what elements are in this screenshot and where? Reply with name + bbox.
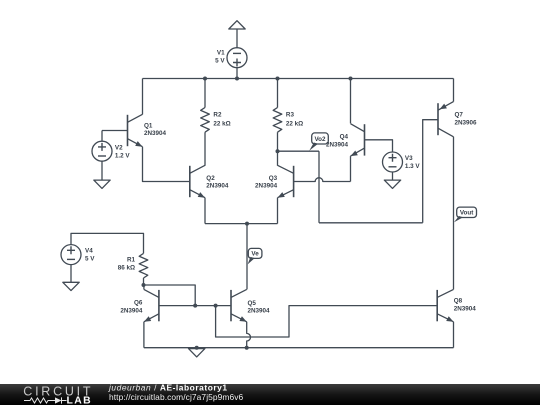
svg-text:V3: V3 <box>405 155 413 162</box>
wire: Q8 emitter leg <box>453 322 455 348</box>
svg-text:2N3904: 2N3904 <box>144 130 167 137</box>
junction Ve node <box>245 222 249 226</box>
svg-text:Vout: Vout <box>460 210 474 217</box>
wire: Q7 collector down to Q8 collector (Vout wire) <box>453 137 455 290</box>
svg-text:Q1: Q1 <box>144 122 153 129</box>
junction V1 to rail <box>235 77 239 81</box>
ground below V2 <box>94 180 110 188</box>
svg-text:Q5: Q5 <box>248 300 257 307</box>
svg-text:LAB: LAB <box>67 396 93 405</box>
wire: Q6 collector leg <box>143 285 145 289</box>
voltage source V3 (1.3 V) <box>383 152 421 172</box>
resistor R1 86k <box>118 253 148 285</box>
svg-text:R1: R1 <box>127 256 136 263</box>
svg-text:Q7: Q7 <box>455 111 464 118</box>
wire: V4 bottom stem <box>70 265 72 283</box>
node label Vout <box>454 207 477 222</box>
junction R1 bottom / Q6 collector <box>142 283 146 287</box>
svg-text:V2: V2 <box>115 144 123 151</box>
junction R2 top <box>203 77 207 81</box>
wire: Q7 emitter to top rail <box>453 79 455 102</box>
wire: V4 top to R1 <box>71 233 144 253</box>
svg-text:1.3 V: 1.3 V <box>405 163 421 170</box>
resistor R2 22k <box>201 79 231 166</box>
svg-text:Q6: Q6 <box>134 300 143 307</box>
svg-text:Q8: Q8 <box>454 298 463 305</box>
transistor Q2 (2N3904) <box>190 165 229 197</box>
wire: R3/Q3 collector node to Vo2 corner <box>278 150 320 152</box>
junction ground rail tap <box>195 346 199 350</box>
wire: emitter rail Q2-Q3 <box>205 223 278 225</box>
voltage source V1 (5 V) <box>215 48 247 68</box>
wire: diode connection R1 node to Q6/Q5 base rail <box>144 285 196 306</box>
wire: ground rail <box>144 347 454 349</box>
wire: Q1 emitter down to Q2 base <box>143 147 190 182</box>
node label Ve <box>248 248 262 264</box>
resistor R3 22k <box>273 79 303 166</box>
CircuitLab logo <box>23 384 93 405</box>
wire: Q6/Q5 base rail <box>159 305 231 307</box>
junction R3 top <box>276 77 280 81</box>
wire: Ve node down to Q5 collector <box>246 224 248 290</box>
junction Q4 collector at rail <box>349 77 353 81</box>
junction Vo2 net at R3 <box>276 149 280 153</box>
wire: V3 bottom stem <box>392 172 394 180</box>
svg-text:5 V: 5 V <box>85 256 95 263</box>
wire: Q4 collector to top rail <box>350 79 352 124</box>
svg-text:22 kΩ: 22 kΩ <box>286 121 303 128</box>
junction base rail right <box>214 304 218 308</box>
svg-text:2N3904: 2N3904 <box>120 307 143 314</box>
svg-text:Q2: Q2 <box>206 175 215 182</box>
wire: Q3 base to Q4 emitter (with hop over Vo2 net) <box>294 178 351 182</box>
svg-text:2N3904: 2N3904 <box>326 142 349 149</box>
junction Q5 emitter at ground rail <box>245 346 249 350</box>
wire: Q2 emitter leg <box>204 198 206 224</box>
junction base rail left <box>193 304 197 308</box>
svg-text:Vo2: Vo2 <box>314 136 326 143</box>
wire: V2 top stem <box>101 131 103 142</box>
wire: Q1 collector to top rail <box>142 79 144 115</box>
svg-text:2N3904: 2N3904 <box>255 182 278 189</box>
svg-text:judeurban / AE-laboratory1: judeurban / AE-laboratory1 <box>108 383 228 393</box>
svg-text:86 kΩ: 86 kΩ <box>118 264 135 271</box>
ground (flipped) above V1 <box>229 21 245 29</box>
svg-text:Q4: Q4 <box>340 134 349 141</box>
transistor Q7 (2N3906 PNP) <box>438 102 477 137</box>
svg-text:R2: R2 <box>213 112 222 119</box>
ground on bottom rail <box>189 349 205 357</box>
wire: +5V top rail <box>143 78 454 80</box>
svg-text:1.2 V: 1.2 V <box>115 152 131 159</box>
footer credit text <box>108 383 244 403</box>
wire: Q4 base to V3 <box>365 140 393 152</box>
wire: V1 top stem <box>236 29 238 48</box>
svg-text:2N3904: 2N3904 <box>206 182 229 189</box>
wire: Q3 emitter leg <box>277 198 279 224</box>
svg-text:22 kΩ: 22 kΩ <box>213 121 230 128</box>
svg-text:V1: V1 <box>217 50 225 57</box>
transistor Q1 (2N3904) <box>128 114 167 146</box>
wire: Q4 emitter leg down to Q3 base rail <box>350 156 352 181</box>
voltage source V4 (5 V) <box>61 245 95 265</box>
transistor Q8 (2N3904) <box>437 289 476 321</box>
svg-text:Q3: Q3 <box>269 175 278 182</box>
transistor Q6 (2N3904) <box>120 289 159 321</box>
node label Vo2 <box>309 133 328 151</box>
ground below V4 <box>63 282 79 290</box>
wire: Vo2 net horizontal to Q7 base leg <box>319 222 423 224</box>
svg-text:Ve: Ve <box>251 251 259 258</box>
svg-text:V4: V4 <box>85 248 93 255</box>
transistor Q4 (2N3904) <box>326 124 365 156</box>
svg-text:2N3904: 2N3904 <box>248 307 271 314</box>
svg-text:2N3904: 2N3904 <box>454 305 477 312</box>
ground below V3 <box>384 180 400 188</box>
svg-text:2N3906: 2N3906 <box>455 119 478 126</box>
svg-text:R3: R3 <box>286 112 295 119</box>
voltage source V2 (1.2 V) <box>92 141 130 161</box>
wire: base net jog down and over to Q8 base <box>216 306 438 337</box>
wire: V2 bottom stem <box>101 161 103 180</box>
svg-text:http://circuitlab.com/cj7a7j5p: http://circuitlab.com/cj7a7j5p9m6v6 <box>109 392 244 402</box>
svg-text:5 V: 5 V <box>215 58 225 65</box>
wire: V1 bottom stem <box>236 68 238 79</box>
wire: Q1 base to V2 <box>102 130 128 132</box>
wire: up to Q7 base <box>423 120 438 223</box>
transistor Q5 (2N3904) <box>231 289 270 321</box>
wire: Vo2 net vertical <box>318 151 320 223</box>
wire: Q5 collector leg handled above; Q5 emitter leg with hop over base jog <box>247 322 251 348</box>
transistor Q3 (2N3904) <box>255 165 294 197</box>
wire: Q6 emitter leg to ground rail <box>143 322 145 348</box>
